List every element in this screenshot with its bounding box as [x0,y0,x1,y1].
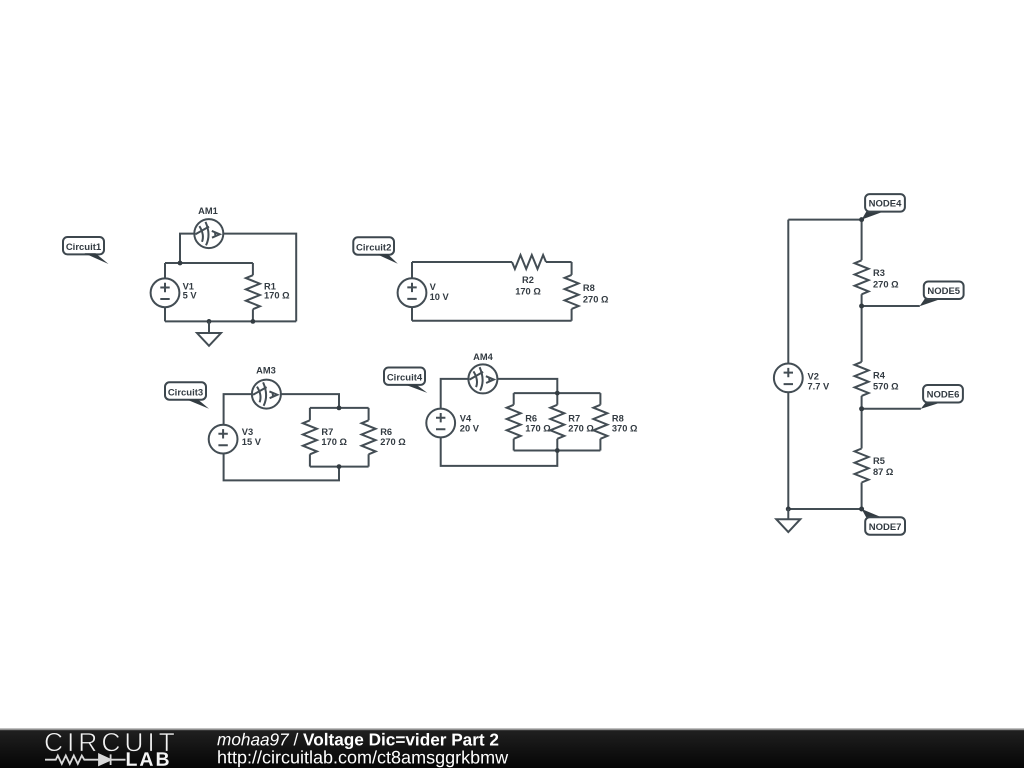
wire ammeter AM3 left [224,394,252,425]
svg-text:270 Ω: 270 Ω [873,280,899,290]
node NODE4 callout [862,194,905,220]
wire top rail circuit2 [412,261,572,263]
wire R7 leads [309,408,311,467]
node junction parallel top circuit3 [337,406,342,411]
node Circuit1 callout [63,237,109,264]
node junction NODE5 [859,304,864,309]
svg-text:270 Ω: 270 Ω [583,295,609,305]
node junction NODE4 [859,217,864,222]
wire parallel bottom rail circuit3 [310,466,369,468]
svg-text:Circuit1: Circuit1 [66,242,102,253]
svg-text:V3: V3 [242,427,253,437]
svg-text:Circuit3: Circuit3 [168,388,203,399]
footer logo schematic [45,754,126,765]
wire R6 leads circuit4 [513,393,515,450]
node junction top rail circuit1 [178,261,183,266]
wire V1 leads [164,263,166,321]
svg-text:AM3: AM3 [256,365,276,375]
wire bottom rail right circuit [788,508,861,510]
svg-text:170 Ω: 170 Ω [515,287,541,297]
svg-text:10 V: 10 V [430,292,450,302]
voltage source V3 [209,425,238,454]
wire top rail right circuit [788,219,861,221]
node NODE6 callout [921,385,963,409]
node junction parallel top circuit4 [555,391,560,396]
wire NODE6 stub [862,408,921,410]
wire parallel top rail circuit3 [310,407,369,409]
ammeter AM3 [252,380,281,409]
node Circuit4 callout [384,368,427,393]
resistor R4 [855,362,869,396]
svg-text:R6: R6 [525,413,537,423]
svg-text:270 Ω: 270 Ω [380,437,406,447]
svg-text:NODE5: NODE5 [927,286,960,297]
svg-text:7.7 V: 7.7 V [808,381,831,391]
ammeter AM1 [194,219,223,248]
wire ammeter AM4 right feed [498,379,557,393]
svg-text:5 V: 5 V [183,291,198,301]
node junction NODE7 [859,507,864,512]
wire R6 leads circuit3 [368,408,370,467]
wire NODE5 stub [862,305,920,307]
svg-text:15 V: 15 V [242,437,262,447]
wire ammeter AM1 right down to bottom rail [223,234,296,322]
svg-text:NODE4: NODE4 [869,199,902,210]
node junction NODE6 [859,406,864,411]
svg-text:270 Ω: 270 Ω [568,424,594,434]
svg-text:R3: R3 [873,268,885,278]
node junction ground circuit1 [207,319,212,324]
node Circuit2 callout [353,237,398,263]
wire ammeter AM1 left to top rail [180,234,194,263]
voltage source V1 [151,278,180,307]
resistor R6 [362,420,376,454]
svg-text:Circuit2: Circuit2 [356,242,391,253]
resistor R1 [246,275,260,309]
wire V3 bottom to network [224,453,339,480]
node Circuit3 callout [165,382,209,408]
svg-text:570 Ω: 570 Ω [873,381,899,391]
wire bottom rail circuit1 [165,320,296,322]
svg-text:R5: R5 [873,456,885,466]
svg-text:V4: V4 [460,413,472,423]
svg-text:R7: R7 [321,427,333,437]
svg-text:R7: R7 [568,413,580,423]
resistor R7 circuit4 [550,405,564,439]
node junction parallel bottom circuit4 [555,448,560,453]
svg-text:Circuit4: Circuit4 [387,373,423,384]
wire R1 leads [252,263,254,321]
resistor R5 [855,449,869,483]
svg-text:V2: V2 [808,372,819,382]
node junction R1 bottom [251,319,256,324]
svg-text:170 Ω: 170 Ω [264,291,290,301]
voltage source V [398,278,427,307]
wire parallel top rail circuit4 [514,392,601,394]
voltage source V2 [774,364,803,393]
wire top rail circuit1 [165,262,253,264]
svg-text:20 V: 20 V [460,424,480,434]
resistor R3 [855,260,869,294]
wire R7 leads circuit4 [556,393,558,450]
wire V4 bottom to network [441,437,558,466]
ammeter AM4 [468,364,497,393]
resistor R2 [512,255,546,269]
wire ammeter AM4 left [441,379,468,409]
svg-text:87 Ω: 87 Ω [873,467,894,477]
ground circuit1 [197,321,221,345]
node junction parallel bottom circuit3 [337,464,342,469]
svg-text:AM1: AM1 [198,206,218,216]
wire parallel bottom rail circuit4 [514,450,601,452]
wire R8 leads circuit4 [599,393,601,450]
svg-text:NODE6: NODE6 [927,390,960,401]
ground right circuit [776,509,800,532]
wire R8 leads circuit2 [571,262,573,321]
svg-text:V: V [430,282,437,292]
node NODE5 callout [920,282,964,307]
svg-text:R2: R2 [522,275,534,285]
svg-text:R4: R4 [873,370,886,380]
wire right branch segments [861,220,863,509]
svg-text:170 Ω: 170 Ω [321,437,347,447]
svg-text:170 Ω: 170 Ω [525,424,551,434]
svg-text:R8: R8 [583,283,595,293]
svg-text:R8: R8 [612,413,624,423]
resistor R6 circuit4 [507,405,521,439]
node NODE7 callout [862,509,905,535]
voltage source V4 [426,409,455,438]
wire bottom rail circuit2 [412,320,572,322]
svg-text:NODE7: NODE7 [869,522,902,533]
node junction V2 bottom [786,507,791,512]
resistor R8 [565,275,579,309]
resistor R8 circuit4 [593,405,607,439]
svg-text:AM4: AM4 [473,352,493,362]
svg-text:http://circuitlab.com/ct8amsgg: http://circuitlab.com/ct8amsggrkbmw [217,747,509,767]
wire V leads circuit2 [411,262,413,321]
resistor R7 [303,420,317,454]
svg-text:LAB: LAB [125,749,171,768]
wire left branch V2 [787,220,789,509]
svg-text:370 Ω: 370 Ω [612,424,638,434]
svg-text:R6: R6 [380,427,392,437]
wire ammeter AM3 right feed [281,394,339,408]
